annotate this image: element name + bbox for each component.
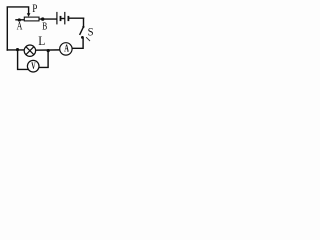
svg-text:P: P [32,3,37,15]
svg-text:A: A [64,42,69,54]
svg-text:V: V [31,61,36,72]
svg-text:B: B [42,20,47,31]
svg-text:S: S [88,26,94,39]
svg-text:A: A [17,20,23,33]
svg-text:L: L [38,34,45,48]
